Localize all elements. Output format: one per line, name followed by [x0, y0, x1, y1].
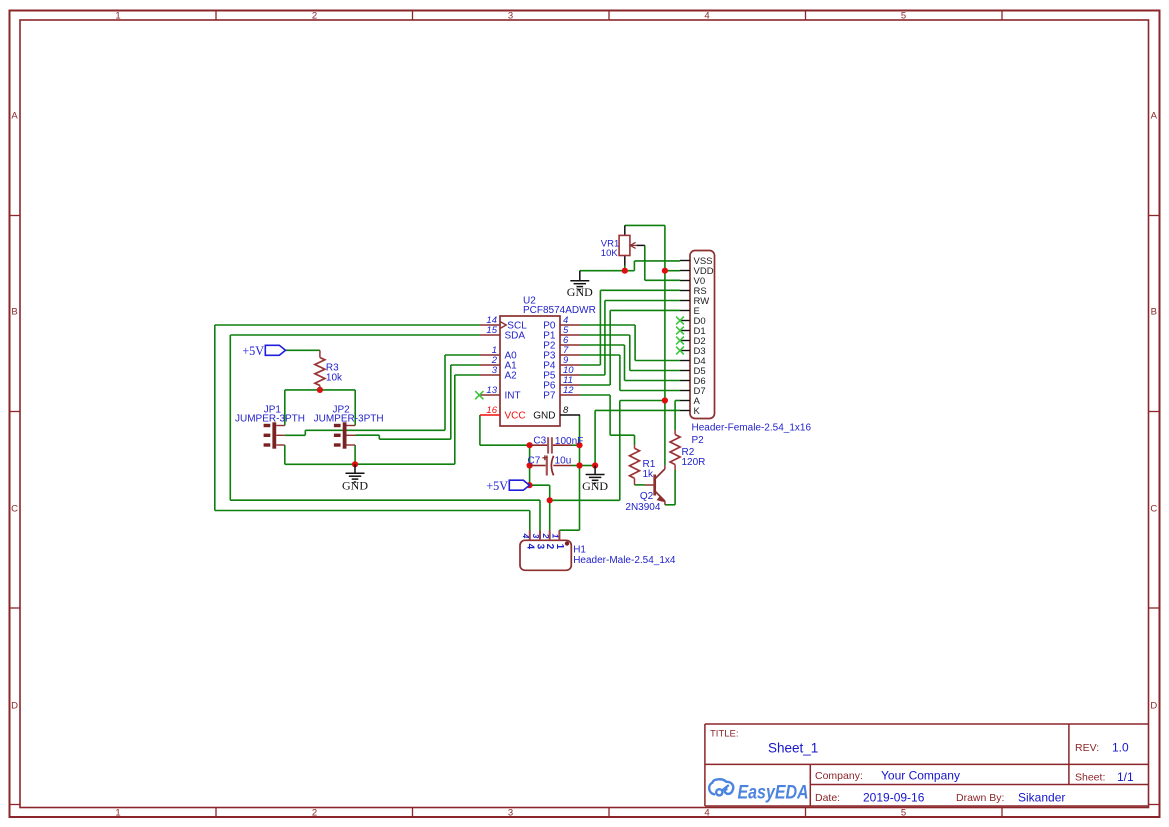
wire V0 net — [645, 245, 680, 280]
svg-text:12: 12 — [563, 385, 574, 396]
+5V flag at R3 — [242, 344, 285, 358]
svg-text:3: 3 — [531, 534, 541, 539]
wire E net — [580, 310, 680, 385]
junction dots — [317, 268, 668, 504]
svg-text:PCF8574ADWR: PCF8574ADWR — [523, 305, 596, 316]
wire +5V to H1 pin2 — [530, 485, 550, 531]
no-connect X on INT pin — [475, 391, 483, 399]
svg-text:2N3904: 2N3904 — [625, 502, 660, 513]
svg-text:1.0: 1.0 — [1112, 741, 1129, 755]
svg-text:16: 16 — [486, 405, 497, 416]
svg-text:4: 4 — [704, 807, 709, 818]
svg-text:4: 4 — [524, 544, 535, 550]
svg-text:Company:: Company: — [815, 770, 863, 782]
svg-text:A: A — [11, 111, 18, 122]
svg-text:1: 1 — [115, 10, 120, 21]
svg-text:JUMPER-3PTH: JUMPER-3PTH — [235, 414, 305, 425]
transistor Q2 2N3904 — [625, 465, 665, 513]
svg-text:+5V: +5V — [242, 344, 264, 358]
resistor R3 10k — [315, 350, 343, 390]
svg-text:10u: 10u — [555, 455, 572, 466]
wire D4 net — [580, 325, 680, 361]
svg-text:GND: GND — [533, 411, 555, 422]
wire A2 net — [355, 375, 480, 464]
svg-text:P2: P2 — [692, 435, 705, 446]
capacitor C7 10u polarized — [528, 455, 572, 475]
svg-text:Drawn By:: Drawn By: — [956, 792, 1004, 804]
resistor R1 1k — [630, 445, 656, 485]
svg-text:K: K — [694, 406, 701, 417]
svg-text:B: B — [11, 307, 17, 318]
+5V flag near H1 — [486, 479, 529, 493]
svg-text:3: 3 — [508, 807, 513, 818]
wire C3 row — [572, 444, 580, 446]
svg-text:B: B — [1151, 307, 1157, 318]
title block — [705, 724, 1149, 806]
wire A0 net — [285, 355, 480, 435]
no-connect X on D0-D3 — [676, 317, 684, 355]
wire A backlight net — [550, 401, 680, 501]
wire JP bottoms to GND — [285, 445, 355, 464]
svg-text:15: 15 — [486, 325, 497, 336]
svg-text:5: 5 — [901, 10, 906, 21]
op-amp U2 PCF8574ADWR IC — [480, 296, 596, 427]
ground near VR1 — [567, 271, 593, 300]
svg-text:Your Company: Your Company — [881, 769, 960, 783]
svg-text:TITLE:: TITLE: — [710, 729, 739, 740]
wire C3-C7-+5V vertical — [529, 445, 531, 485]
svg-text:8: 8 — [563, 405, 569, 416]
svg-text:100nF: 100nF — [555, 436, 583, 447]
header H1 Header-Male-2.54_1x4 — [520, 530, 676, 570]
svg-text:1k: 1k — [643, 469, 655, 480]
svg-text:Sheet_1: Sheet_1 — [768, 741, 818, 756]
wire VSS net — [580, 261, 680, 271]
wire R3 bottom to JP1/JP2 top — [285, 390, 355, 426]
svg-text:JUMPER-3PTH: JUMPER-3PTH — [314, 414, 384, 425]
svg-text:2: 2 — [312, 10, 317, 21]
wire VCC net — [480, 415, 530, 445]
wire D5 net — [580, 335, 680, 371]
svg-text:3: 3 — [508, 10, 513, 21]
svg-text:2: 2 — [541, 533, 551, 539]
wire D7 net — [580, 355, 680, 391]
capacitor C3 100nF — [530, 436, 583, 454]
svg-text:C3: C3 — [533, 436, 546, 447]
svg-text:Q2: Q2 — [640, 491, 654, 502]
svg-text:C: C — [11, 504, 18, 515]
wire K net — [595, 410, 680, 465]
wire SDA net — [230, 335, 540, 531]
svg-text:120R: 120R — [682, 457, 706, 468]
svg-text:13: 13 — [486, 385, 497, 396]
svg-text:D: D — [1150, 701, 1157, 712]
svg-text:10K: 10K — [601, 248, 619, 259]
svg-text:1: 1 — [115, 807, 120, 818]
wire RS net — [580, 290, 680, 365]
svg-text:10k: 10k — [326, 373, 343, 384]
svg-text:1: 1 — [554, 544, 565, 550]
svg-text:Date:: Date: — [815, 792, 840, 804]
svg-text:GND: GND — [342, 479, 368, 493]
svg-text:1/1: 1/1 — [1117, 770, 1134, 784]
svg-text:Sikander: Sikander — [1018, 791, 1065, 805]
svg-text:VCC: VCC — [505, 411, 526, 422]
wire RW net — [580, 301, 680, 376]
wire GND8 net — [559, 415, 579, 531]
ground near C7 — [582, 466, 608, 494]
jumper JP1 JUMPER-3PTH — [235, 405, 305, 449]
wire R3 top — [286, 349, 320, 351]
svg-text:REV:: REV: — [1075, 742, 1099, 754]
jumper JP2 JUMPER-3PTH — [314, 405, 384, 449]
resistor R2 120R — [670, 430, 705, 470]
wire R1 to Q2 base — [635, 484, 645, 486]
svg-text:1: 1 — [551, 534, 561, 539]
svg-text:2: 2 — [544, 544, 555, 550]
svg-text:SDA: SDA — [505, 331, 526, 342]
header P2 Header-Female-2.54_1x16 — [680, 251, 811, 447]
svg-text:Header-Male-2.54_1x4: Header-Male-2.54_1x4 — [573, 555, 676, 566]
svg-text:EasyEDA: EasyEDA — [738, 781, 809, 803]
wire D6 net — [580, 345, 680, 381]
svg-text:GND: GND — [582, 479, 608, 493]
wire C7 row — [572, 465, 596, 467]
svg-text:H1: H1 — [573, 545, 586, 556]
svg-text:A2: A2 — [505, 371, 518, 382]
svg-text:C: C — [1150, 504, 1157, 515]
svg-text:D: D — [11, 701, 18, 712]
svg-text:4: 4 — [704, 10, 709, 21]
ground below JP2 — [342, 464, 368, 492]
svg-text:3: 3 — [492, 365, 498, 376]
svg-text:INT: INT — [505, 391, 521, 402]
wire P7 to R1 — [580, 395, 635, 445]
svg-text:2019-09-16: 2019-09-16 — [863, 791, 925, 805]
svg-text:A: A — [1151, 111, 1158, 122]
svg-text:Header-Female-2.54_1x16: Header-Female-2.54_1x16 — [692, 423, 812, 434]
wire SCL net — [215, 325, 530, 531]
svg-text:C7: C7 — [528, 455, 541, 466]
wire VDD net — [625, 225, 680, 465]
potentiometer VR1 10K — [601, 225, 645, 265]
svg-text:3: 3 — [535, 544, 546, 550]
EasyEDA logo — [709, 779, 808, 802]
svg-text:+5V: +5V — [486, 479, 508, 493]
svg-text:P7: P7 — [543, 391, 556, 402]
svg-text:GND: GND — [567, 285, 593, 299]
wire R2 bottom to Q2 emitter — [665, 470, 675, 505]
svg-text:2: 2 — [312, 807, 317, 818]
svg-text:Sheet:: Sheet: — [1075, 772, 1105, 784]
wire A1 net — [355, 365, 480, 439]
svg-text:4: 4 — [521, 533, 531, 539]
svg-text:5: 5 — [901, 807, 906, 818]
